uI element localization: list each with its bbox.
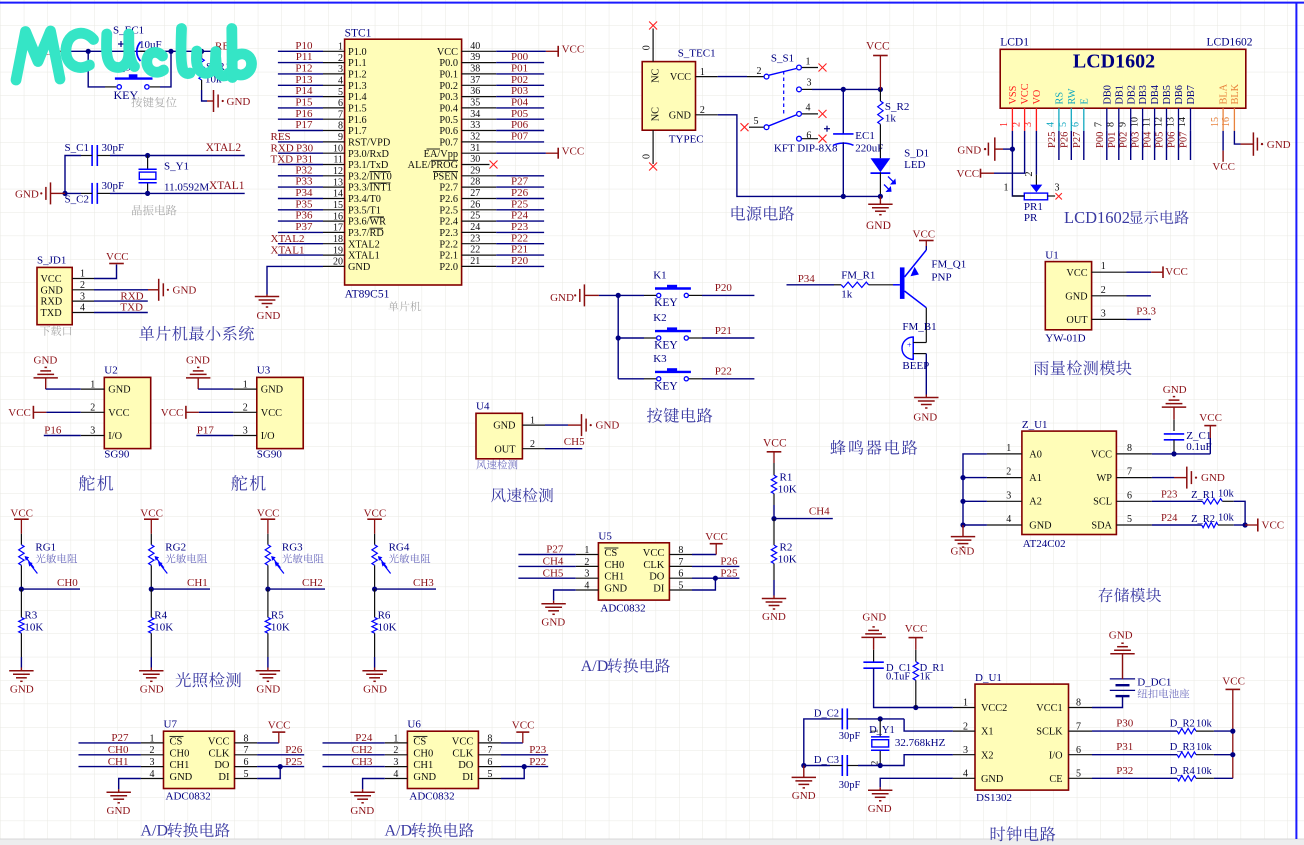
svg-text:P26: P26: [720, 556, 738, 568]
svg-text:8: 8: [1076, 698, 1081, 709]
svg-text:32: 32: [470, 132, 480, 143]
wire D_R4 P32: [1092, 765, 1177, 779]
mcu right net labels: [511, 51, 529, 267]
connector S_JD1 body: [37, 255, 72, 325]
svg-text:15: 15: [333, 200, 343, 211]
svg-text:4: 4: [338, 76, 343, 87]
svg-text:5: 5: [487, 769, 492, 780]
svg-text:6: 6: [487, 757, 492, 768]
svg-text:5: 5: [1127, 514, 1132, 525]
svg-text:1k: 1k: [885, 112, 897, 124]
wire lcd VCC pin2: [994, 131, 1025, 173]
power port VCC (reset rail): [29, 45, 66, 58]
ground (power circuit): [866, 196, 893, 232]
power port VCC (rtc): [905, 623, 928, 650]
svg-text:GND: GND: [1163, 384, 1187, 396]
svg-text:+: +: [907, 341, 912, 350]
svg-text:NC: NC: [651, 107, 662, 121]
lcd pin names: [1008, 83, 1241, 104]
annotation 下载口: [40, 326, 71, 336]
power port VCC (U6): [512, 720, 535, 743]
svg-text:Z_U1: Z_U1: [1022, 419, 1048, 431]
svg-text:1: 1: [338, 42, 343, 53]
svg-text:P23: P23: [1161, 490, 1177, 501]
svg-text:P0.6: P0.6: [439, 126, 458, 137]
svg-text:P3.5/T1: P3.5/T1: [348, 205, 381, 216]
svg-text:A/D: A/D: [385, 823, 413, 840]
svg-text:P04: P04: [511, 97, 529, 109]
resistor R1 10K: [771, 463, 796, 505]
svg-text:VCC: VCC: [268, 720, 291, 732]
svg-text:14: 14: [333, 189, 343, 200]
svg-text:P1.2: P1.2: [348, 70, 367, 81]
svg-text:CH0: CH0: [413, 748, 433, 759]
svg-text:CH4: CH4: [543, 556, 564, 568]
svg-text:P1.5: P1.5: [348, 104, 367, 115]
title 电源电路: [732, 206, 795, 221]
resistor S_R2 1k: [878, 89, 910, 158]
power port VCC (U5): [705, 531, 728, 554]
svg-text:OUT: OUT: [494, 444, 516, 455]
adc U6 left wires: [323, 732, 385, 768]
svg-text:RXD: RXD: [120, 290, 143, 302]
svg-text:10K: 10K: [271, 622, 290, 634]
photoresistor RG3: [265, 534, 303, 589]
capacitor S_C2 30pF: [65, 180, 125, 206]
svg-text:30pF: 30pF: [102, 142, 125, 154]
svg-text:8: 8: [1127, 443, 1132, 454]
wire key right leg: [160, 51, 171, 87]
title A/D转换电路 (U6): [385, 823, 474, 840]
svg-text:VCC: VCC: [161, 407, 184, 419]
svg-text:OUT: OUT: [1066, 315, 1088, 326]
svg-text:21: 21: [470, 256, 480, 267]
svg-text:2: 2: [1101, 285, 1106, 296]
wire Z_R1 to VCC column: [1234, 501, 1245, 525]
svg-text:WP: WP: [1097, 473, 1113, 484]
svg-text:P25: P25: [720, 567, 738, 579]
svg-text:VCC: VCC: [670, 72, 691, 83]
wire S_JD1 pin1 to VCC: [94, 265, 117, 279]
potentiometer PR1: [1004, 172, 1062, 224]
svg-text:17: 17: [333, 223, 343, 234]
rtc D_U1 DS1302 body: [975, 672, 1069, 804]
svg-text:P2.6: P2.6: [439, 194, 458, 205]
junction crystal bottom (rtc): [878, 763, 883, 768]
svg-text:4: 4: [1046, 122, 1057, 127]
svg-text:P31: P31: [1116, 741, 1133, 753]
wire lcd VO pin3: [1035, 131, 1037, 175]
crystal S_Y1 11.0592M: [139, 156, 210, 194]
photoresistor RG1: [19, 534, 56, 589]
net label P34: [798, 273, 816, 285]
svg-text:19: 19: [333, 245, 343, 256]
svg-text:1: 1: [584, 545, 589, 556]
svg-text:5: 5: [338, 87, 343, 98]
svg-text:6: 6: [1071, 122, 1082, 127]
title 舵机 (U3): [231, 475, 265, 491]
connector S_JD1 pins and names: [41, 269, 95, 319]
junction keys K2: [616, 335, 621, 340]
svg-text:P16: P16: [295, 108, 313, 120]
wire R4 to gnd: [150, 657, 152, 668]
svg-text:EA/Vpp: EA/Vpp: [424, 149, 458, 160]
svg-text:2: 2: [80, 280, 85, 291]
svg-text:P36: P36: [295, 210, 313, 222]
svg-text:GND: GND: [868, 803, 892, 815]
junction reset left: [86, 49, 91, 54]
svg-text:GND: GND: [170, 772, 193, 783]
svg-text:10K: 10K: [378, 622, 397, 634]
svg-text:4: 4: [80, 303, 85, 314]
svg-text:3: 3: [90, 426, 95, 437]
annotation 纽扣电池座: [1138, 689, 1190, 699]
power port VCC (rtc pullups): [1222, 676, 1245, 779]
svg-text:P27: P27: [111, 732, 129, 744]
power port VCC (lcd backlight): [1212, 151, 1235, 174]
svg-text:4: 4: [963, 769, 968, 780]
svg-text:XTAL2: XTAL2: [271, 233, 305, 245]
svg-text:22: 22: [470, 245, 480, 256]
wire net CH0: [21, 577, 80, 589]
power port VCC (servo U2): [8, 406, 46, 419]
power port VCC (RG1): [10, 508, 33, 534]
svg-text:P23: P23: [511, 221, 529, 233]
sheet bottom margin strip: [0, 839, 1304, 845]
svg-text:38: 38: [470, 64, 480, 75]
svg-text:GND: GND: [862, 612, 886, 624]
svg-text:1: 1: [1004, 183, 1009, 194]
svg-text:RS: RS: [1055, 92, 1066, 105]
ground (keys): [550, 284, 599, 306]
svg-text:CH2: CH2: [352, 744, 373, 756]
svg-text:0.1uF: 0.1uF: [1186, 441, 1211, 453]
mcu right pins: [462, 51, 497, 266]
svg-text:3: 3: [807, 78, 812, 89]
svg-text:1: 1: [999, 122, 1010, 127]
svg-text:7: 7: [1094, 122, 1105, 127]
svg-text:STC1: STC1: [345, 28, 372, 40]
power port VCC (servo U3): [161, 406, 199, 419]
svg-text:P03: P03: [511, 85, 529, 97]
sheet top border line: [0, 2, 1304, 4]
svg-text:VCC: VCC: [106, 251, 129, 263]
svg-text:U4: U4: [476, 401, 490, 413]
net label RES: [215, 41, 235, 53]
svg-text:3: 3: [150, 757, 155, 768]
svg-text:1: 1: [870, 729, 880, 734]
svg-text:XTAL1: XTAL1: [209, 180, 245, 192]
svg-text:VCC2: VCC2: [981, 703, 1007, 714]
svg-text:7: 7: [244, 745, 249, 756]
svg-text:P3.4/T0: P3.4/T0: [348, 194, 381, 205]
wire VCC to FM_Q1 emitter: [925, 246, 927, 250]
svg-text:U6: U6: [407, 719, 421, 731]
adc U7 left wires: [79, 732, 141, 768]
wire servo U2 pin1: [46, 388, 81, 390]
resistor D_R3 10k: [1170, 742, 1214, 757]
key switch K3: [618, 353, 702, 381]
svg-text:CS: CS: [170, 736, 183, 747]
svg-text:1: 1: [963, 698, 968, 709]
wire TXD: [94, 302, 148, 314]
svg-text:3: 3: [584, 569, 589, 580]
svg-text:7: 7: [487, 745, 492, 756]
power port VCC (U1): [1151, 266, 1188, 278]
svg-text:1: 1: [80, 269, 85, 280]
svg-text:GND: GND: [981, 774, 1004, 785]
lcd net labels: [1047, 131, 1190, 148]
svg-text:VCC: VCC: [512, 720, 535, 732]
power port VCC (power circuit): [866, 41, 890, 90]
svg-text:X1: X1: [981, 727, 994, 738]
lcd data wires: [1059, 131, 1191, 160]
svg-text:ALE/PROG: ALE/PROG: [408, 160, 459, 171]
svg-text:D_R3: D_R3: [1170, 742, 1195, 753]
svg-text:CH5: CH5: [564, 436, 585, 448]
wire U1 pin2: [1127, 295, 1151, 297]
svg-text:13: 13: [333, 177, 343, 188]
wire keys left bus: [599, 295, 618, 378]
junction crystal top (rtc): [878, 716, 883, 721]
svg-text:P22: P22: [511, 232, 528, 244]
transistor FM_Q1 PNP: [893, 250, 966, 308]
svg-text:P01: P01: [1107, 132, 1118, 148]
svg-text:2: 2: [393, 745, 398, 756]
svg-text:VCC: VCC: [1165, 266, 1188, 278]
svg-text:10k: 10k: [1196, 742, 1213, 753]
svg-text:FM_B1: FM_B1: [902, 321, 936, 333]
wire buzzer to GND: [925, 354, 927, 395]
svg-text:P25: P25: [511, 198, 529, 210]
svg-text:P00: P00: [511, 51, 529, 63]
resistor R4 10K: [149, 589, 174, 657]
svg-text:P24: P24: [355, 732, 373, 744]
ground (R6): [362, 668, 387, 696]
servo U2 SG90 body: [104, 365, 150, 461]
svg-text:2: 2: [584, 557, 589, 568]
svg-text:CH1: CH1: [604, 572, 624, 583]
svg-text:10k: 10k: [1218, 513, 1235, 524]
junction caps-gnd: [62, 191, 67, 196]
wire lcd BLA pin15: [1222, 131, 1224, 151]
servo U2 pins: [81, 379, 131, 442]
svg-text:DB1: DB1: [1114, 85, 1125, 104]
svg-text:GND: GND: [1267, 139, 1291, 151]
svg-text:GND: GND: [261, 385, 284, 396]
junction A1: [960, 475, 965, 480]
svg-text:P06: P06: [511, 119, 529, 131]
junction Z pullup: [1243, 522, 1248, 527]
power port VCC (mcu pin40): [546, 44, 584, 57]
key switch K1: [618, 269, 702, 297]
svg-text:CH4: CH4: [809, 506, 830, 518]
ground (battery): [1109, 630, 1135, 679]
wire R5 to gnd: [267, 657, 269, 668]
svg-text:GND: GND: [256, 684, 280, 696]
svg-text:8: 8: [678, 545, 683, 556]
junction GND pin4: [960, 522, 965, 527]
svg-text:P0.4: P0.4: [439, 104, 458, 115]
svg-text:RST/VPD: RST/VPD: [348, 138, 391, 149]
svg-text:2: 2: [530, 439, 535, 450]
svg-text:CH3: CH3: [352, 756, 373, 768]
svg-text:P34: P34: [798, 273, 816, 285]
svg-text:VCC: VCC: [364, 508, 387, 520]
svg-text:2: 2: [1024, 172, 1035, 177]
capacitor D_C3 30pF: [814, 755, 861, 791]
svg-text:DI: DI: [653, 584, 665, 595]
svg-text:24: 24: [470, 222, 480, 233]
wire R2 to gnd: [773, 580, 775, 596]
junction at S_R1: [199, 49, 204, 54]
svg-text:23: 23: [470, 233, 480, 244]
svg-text:7: 7: [1076, 721, 1081, 732]
svg-text:30pF: 30pF: [839, 731, 861, 742]
svg-text:CH5: CH5: [543, 567, 564, 579]
wire U4 pin2 CH5: [545, 436, 585, 449]
wire XTAL2 net: [110, 155, 245, 157]
svg-text:P24: P24: [1161, 513, 1178, 524]
title 舵机 (U2): [79, 475, 113, 491]
svg-text:34: 34: [470, 109, 480, 120]
ground (U4): [568, 414, 619, 436]
svg-text:PR: PR: [1024, 212, 1038, 224]
svg-text:ADC0832: ADC0832: [409, 791, 454, 803]
svg-text:GND: GND: [363, 684, 387, 696]
svg-text:A0: A0: [1029, 449, 1042, 460]
adc U6 DO wire: [501, 756, 548, 768]
svg-text:5: 5: [1058, 122, 1069, 127]
wire collector to buzzer: [925, 308, 927, 343]
adc U5 clk wire: [692, 556, 739, 568]
wire crystal caps left bus: [65, 156, 81, 194]
svg-text:2: 2: [1006, 467, 1011, 478]
adc U6 body: [407, 719, 478, 803]
svg-text:RXD: RXD: [271, 142, 294, 154]
svg-text:P0.2: P0.2: [439, 81, 458, 92]
title 光照检测: [176, 672, 241, 687]
capacitor S_C1 30pF: [65, 142, 125, 166]
junction CH1: [149, 587, 154, 592]
resistor D_R4 10k: [1170, 766, 1214, 781]
adc U5 left wires: [518, 544, 575, 580]
photoresistor RG4: [372, 534, 410, 589]
svg-text:P1.0: P1.0: [348, 47, 367, 58]
svg-text:6: 6: [1076, 745, 1081, 756]
svg-text:1k: 1k: [920, 672, 931, 683]
svg-text:GND: GND: [957, 144, 981, 156]
svg-text:10K: 10K: [24, 622, 43, 634]
svg-text:GND: GND: [913, 412, 937, 424]
svg-text:2: 2: [150, 745, 155, 756]
svg-text:R6: R6: [378, 610, 391, 622]
junction CH2: [265, 587, 270, 592]
svg-text:10k: 10k: [1196, 766, 1213, 777]
svg-text:VCC: VCC: [705, 531, 728, 543]
mcu left pins: [323, 51, 345, 266]
svg-text:ADC0832: ADC0832: [600, 602, 645, 614]
net label XTAL2 (crystal): [206, 142, 242, 154]
svg-text:PSEN: PSEN: [433, 171, 459, 182]
svg-text:37: 37: [470, 75, 480, 86]
svg-text:CH3: CH3: [413, 577, 434, 589]
svg-text:4: 4: [1006, 514, 1011, 525]
svg-text:2: 2: [963, 721, 968, 732]
svg-text:VCC: VCC: [866, 41, 890, 53]
adc U5 pins: [576, 545, 692, 595]
svg-text:12: 12: [333, 166, 343, 177]
wire D_R2 to VCC column: [1214, 729, 1236, 734]
svg-text:3: 3: [1055, 183, 1060, 194]
led S_D1: [871, 148, 930, 197]
svg-text:LCD1602: LCD1602: [1064, 208, 1130, 227]
svg-text:2: 2: [1011, 122, 1022, 127]
resistor R2 10K: [771, 519, 796, 580]
wire XTAL1 net: [110, 192, 245, 194]
svg-text:VCC: VCC: [1020, 83, 1031, 104]
power port VCC (RG3): [257, 508, 280, 534]
svg-text:P34: P34: [295, 187, 313, 199]
svg-text:5: 5: [754, 116, 759, 127]
mcu left name overlines: [370, 172, 391, 229]
svg-text:RW: RW: [1067, 88, 1078, 104]
svg-text:AT89C51: AT89C51: [345, 289, 390, 301]
net label P16: [44, 425, 62, 437]
svg-text:CH1: CH1: [170, 760, 190, 771]
svg-text:CLK: CLK: [209, 748, 230, 759]
mcu left net labels: [271, 40, 314, 256]
svg-text:LCD1602: LCD1602: [1073, 51, 1155, 73]
wire D_C3 to crystal bottom: [858, 765, 880, 767]
wire R6 to gnd: [374, 657, 376, 668]
label KFT DIP-8X8: [774, 143, 838, 155]
svg-text:VCC: VCC: [437, 47, 458, 58]
svg-text:RG2: RG2: [165, 542, 186, 554]
adc U6 pins: [385, 733, 501, 783]
svg-text:VCC1: VCC1: [1036, 703, 1062, 714]
wire net CH4: [774, 506, 833, 519]
wire lcd BLK pin16: [1234, 131, 1240, 144]
annotation 单片机: [388, 301, 420, 311]
capacitor Z_C1 0.1uF: [1164, 420, 1212, 454]
sheet right border line: [1295, 2, 1297, 839]
photoresistor RG2: [149, 534, 186, 589]
wire net CH1: [151, 577, 210, 589]
svg-text:P23: P23: [529, 744, 547, 756]
power port VCC (Z pullups): [1245, 519, 1284, 532]
svg-text:GND: GND: [1065, 291, 1088, 302]
annotation 光敏电阻 (RG4): [389, 554, 430, 564]
buzzer FM_B1 BEEP: [902, 321, 937, 372]
svg-text:P27: P27: [546, 544, 564, 556]
wire D_R3 P31: [1092, 741, 1177, 755]
svg-text:P0.7: P0.7: [439, 138, 458, 149]
svg-text:26: 26: [470, 199, 480, 210]
title A/D转换电路 (U5): [581, 658, 670, 675]
svg-text:K3: K3: [653, 353, 667, 365]
junction D_R1 bottom: [913, 705, 918, 710]
svg-text:25: 25: [470, 211, 480, 222]
svg-text:P07: P07: [1179, 132, 1190, 148]
svg-text:16: 16: [333, 211, 343, 222]
servo U3 pins: [233, 379, 283, 442]
svg-text:P03: P03: [1131, 132, 1142, 148]
svg-text:P32: P32: [1116, 765, 1133, 777]
svg-text:18: 18: [333, 234, 343, 245]
svg-text:P3.3: P3.3: [1136, 306, 1156, 318]
svg-text:R5: R5: [271, 610, 284, 622]
